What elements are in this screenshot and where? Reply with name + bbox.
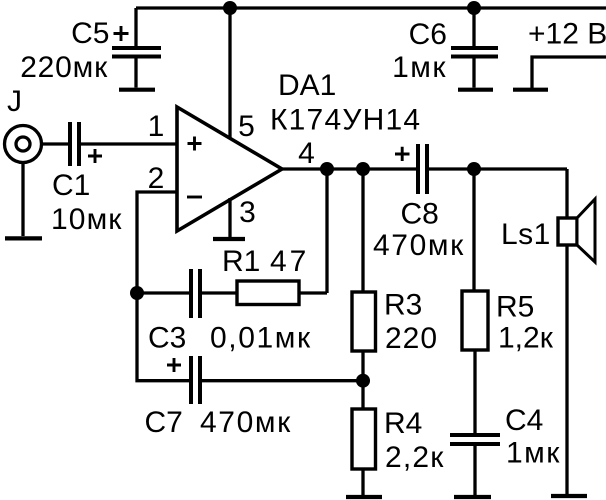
ground (under C4): [454, 495, 491, 499]
svg-text:R3: R3: [384, 289, 422, 322]
wire: C1 to pin 1: [81, 142, 177, 145]
svg-text:R5: R5: [496, 291, 534, 324]
resistor R5: [462, 169, 554, 434]
node: top rail to C6: [467, 1, 481, 15]
ground (under C5): [119, 88, 155, 92]
capacitor C1: [51, 122, 123, 236]
svg-text:C1: C1: [52, 169, 90, 202]
svg-text:К174УН14: К174УН14: [270, 104, 421, 137]
svg-text:C7: C7: [145, 406, 183, 439]
wire: feedback vertical from output node: [325, 169, 328, 293]
capacitor C3: [137, 269, 312, 355]
svg-text:0,01мк: 0,01мк: [210, 322, 312, 355]
node: top rail to pin 5: [223, 1, 237, 15]
wire: J to C1: [42, 142, 68, 145]
resistor R3: [352, 289, 438, 356]
wire: pin 2: [137, 192, 177, 293]
svg-text:470мк: 470мк: [373, 229, 465, 262]
svg-text:R1: R1: [222, 245, 260, 278]
node: output to feedback: [320, 162, 334, 176]
svg-text:3: 3: [239, 196, 256, 229]
+12V supply terminal: [513, 18, 606, 90]
wire: R3 branch vertical: [361, 169, 364, 381]
capacitor C7: [145, 356, 364, 439]
ground (under R4): [346, 495, 382, 499]
ground (under J): [5, 236, 42, 240]
svg-text:2: 2: [148, 162, 165, 195]
wire: output pin 4: [282, 167, 417, 170]
ground (pin 3): [213, 237, 245, 241]
svg-text:C3: C3: [148, 322, 186, 355]
svg-text:+12 В: +12 В: [528, 18, 606, 51]
svg-text:4: 4: [298, 137, 315, 170]
svg-text:C6: C6: [409, 18, 447, 51]
node: pin2 / C3 junction: [130, 286, 144, 300]
node: C7 / R3 / R4 junction: [356, 374, 370, 388]
svg-text:10мк: 10мк: [51, 203, 123, 236]
svg-text:470мк: 470мк: [200, 406, 292, 439]
node: output to R5: [467, 162, 481, 176]
ground (under Ls1): [551, 494, 587, 498]
svg-text:220мк: 220мк: [20, 51, 108, 84]
ground (under C6): [458, 88, 493, 92]
wire: +12V top rail: [136, 6, 606, 9]
capacitor C4: [450, 404, 561, 495]
svg-text:R4: R4: [384, 407, 422, 440]
svg-text:C5: C5: [71, 17, 109, 50]
resistor R1: [202, 245, 327, 305]
pin 3 wire: [228, 198, 231, 237]
svg-text:1мк: 1мк: [506, 437, 561, 470]
svg-text:47: 47: [270, 245, 309, 278]
op-amp DA1 triangle: [177, 107, 282, 231]
svg-text:C4: C4: [505, 404, 543, 437]
svg-text:2,2к: 2,2к: [385, 441, 445, 474]
svg-text:1,2к: 1,2к: [498, 322, 554, 355]
node: output to R3: [356, 162, 370, 176]
svg-text:J: J: [7, 85, 22, 118]
svg-text:DA1: DA1: [278, 69, 336, 102]
svg-text:1: 1: [148, 110, 165, 143]
svg-text:220: 220: [385, 322, 438, 355]
wire: C8 to speaker branch: [428, 167, 567, 170]
svg-text:Ls1: Ls1: [501, 218, 551, 251]
loudspeaker Ls1: [501, 199, 595, 262]
connector J (input jack): [5, 85, 42, 236]
svg-text:1мк: 1мк: [392, 51, 447, 84]
wire: left vertical down to C7: [137, 293, 189, 381]
capacitor C5: [20, 8, 161, 88]
svg-text:C8: C8: [401, 198, 439, 231]
resistor R4: [352, 381, 445, 495]
wire: pin 5 to top rail: [228, 8, 231, 140]
capacitor C8: [373, 144, 465, 262]
wire: speaker branch down: [565, 169, 568, 494]
svg-text:5: 5: [238, 110, 255, 143]
capacitor C6: [392, 8, 498, 88]
